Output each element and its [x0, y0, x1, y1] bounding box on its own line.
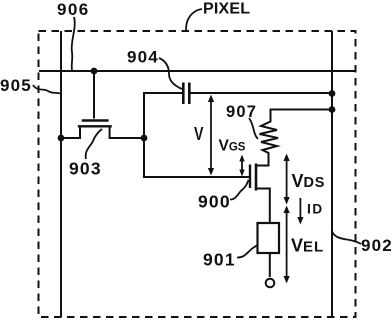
wire: loop bottom wire to gate of 900 — [144, 176, 249, 178]
transistor 903 drain stub — [110, 126, 144, 138]
wire: capacitor top wire right — [190, 92, 332, 94]
VGS arrow — [239, 155, 244, 177]
svg-text:VEL: VEL — [291, 236, 324, 256]
leader 903 — [86, 129, 102, 159]
leader 905 — [33, 85, 61, 94]
wire: scan line (horizontal 906) — [39, 70, 355, 72]
VDS arrow — [284, 154, 290, 205]
svg-text:903: 903 — [69, 159, 102, 179]
svg-text:ID: ID — [307, 201, 322, 217]
VEL arrow — [284, 206, 290, 284]
transistor 903 gate bar — [82, 119, 109, 121]
wire: gate lead of 903 — [93, 71, 95, 119]
wire: capacitor top wire left — [143, 92, 182, 94]
node: junction dot power/resistor — [329, 106, 336, 113]
node: junction dot power/cap — [329, 90, 336, 97]
transistor 900 source wire down — [256, 189, 270, 224]
leader 900 — [230, 180, 249, 200]
ID arrow — [297, 198, 303, 225]
svg-text:PIXEL: PIXEL — [203, 1, 250, 18]
svg-text:906: 906 — [57, 0, 90, 19]
wire: below 901 box — [269, 253, 271, 277]
leader PIXEL — [186, 9, 202, 32]
transistor 903 source stub — [61, 126, 80, 138]
leader 906 — [72, 17, 75, 70]
transistor 900 channel bar — [255, 164, 258, 191]
transistor 903 channel bar — [78, 125, 112, 127]
transistor 900 gate bar — [249, 165, 251, 189]
element 901 box — [258, 223, 280, 253]
svg-text:901: 901 — [203, 250, 236, 270]
svg-text:V: V — [194, 124, 204, 144]
V arrow — [208, 95, 214, 176]
node: junction dot scan/gate — [91, 68, 98, 75]
leader 901 — [237, 245, 258, 258]
node: junction dot data/source — [58, 135, 65, 142]
resistor 907 with leads — [256, 110, 332, 166]
leader 907 — [249, 118, 258, 139]
capacitor 904 right plate — [188, 83, 191, 105]
svg-text:900: 900 — [198, 192, 231, 212]
node: junction dot loop/drain — [141, 135, 148, 142]
svg-text:905: 905 — [0, 76, 32, 95]
capacitor 904 left plate — [182, 83, 185, 105]
svg-text:904: 904 — [127, 48, 159, 67]
pixel boundary dashed box — [39, 31, 356, 317]
wire: power line (right vertical 902) — [331, 31, 333, 317]
terminal circle — [266, 279, 275, 288]
leader 902 — [332, 231, 361, 244]
svg-text:902: 902 — [361, 236, 392, 255]
wire: storage loop left vertical — [143, 92, 145, 178]
wire: data line (left vertical 905) — [60, 31, 62, 317]
svg-text:907: 907 — [226, 103, 257, 121]
leader 904 — [159, 58, 182, 89]
